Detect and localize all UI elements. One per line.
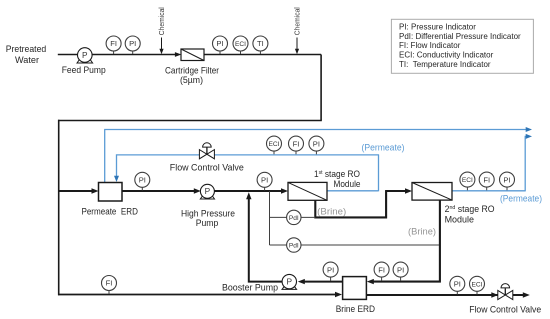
arrow booster discharge into HP line [246,192,251,199]
instrument PI HP line [257,172,272,190]
svg-text:FI: FI [293,139,300,148]
wire bottom feed to Brine ERD [58,294,336,296]
feed pump P [62,48,106,76]
arrow into Permeate ERD [92,188,99,193]
svg-text:Flow Control Valve: Flow Control Valve [469,305,541,316]
wire module 1 permeate (blue line B) [117,154,380,191]
wire Brine ERD outlet bottom right [366,294,524,296]
svg-text:(Permeate): (Permeate) [500,193,542,203]
wire Brine ERD to booster pump [304,281,343,283]
RO module 1 [288,169,361,201]
svg-text:FI: FI [106,279,113,288]
svg-text:Booster Pump: Booster Pump [222,283,278,294]
svg-text:FI: Flow Indicator: FI: Flow Indicator [399,41,461,50]
svg-text:ECI: ECI [472,281,483,288]
svg-text:Module: Module [445,214,474,225]
svg-text:PI: PI [216,39,223,48]
svg-text:P: P [205,186,211,196]
wire corner drop right [320,55,322,121]
svg-text:FI: FI [378,265,385,274]
svg-text:PI: PI [397,265,404,274]
arrow discharge end [523,292,530,297]
wire module 2 permeate (blue line C) [452,136,527,191]
svg-text:PI: PI [261,176,268,185]
instrument FI permeate B [289,136,304,154]
svg-text:TI: TI [257,39,264,48]
arrow brine into Brine ERD right side [367,279,374,284]
arrow into RO module 1 [281,188,288,193]
wire module 1 brine line [314,191,405,218]
instrument ECI permeate B [267,136,282,154]
cartridge filter [165,49,219,86]
svg-text:ECI: Conductivity Indicator: ECI: Conductivity Indicator [399,51,494,60]
svg-text:(Permeate): (Permeate) [362,143,405,153]
Brine ERD [336,277,375,316]
svg-text:Permeate ERD: Permeate ERD [81,207,138,218]
svg-text:(5µm): (5µm) [180,75,203,86]
svg-text:(Brine): (Brine) [408,227,436,237]
svg-text:Pretreated: Pretreated [6,44,47,55]
arrow into cartridge filter [175,52,182,57]
chemical dosing point 2 [292,7,301,54]
instrument PI feed [125,36,140,54]
svg-text:(Brine): (Brine) [317,206,346,216]
svg-text:Brine ERD: Brine ERD [336,304,375,315]
svg-text:PI: PI [129,39,136,48]
instrument FI feed [106,36,121,54]
instrument TI after filter [253,36,268,54]
wire HP feed branch [58,190,93,192]
instrument PI brine inlet [393,262,408,281]
svg-text:PdI: PdI [289,243,299,250]
instrument ECI discharge [470,276,485,294]
svg-text:Pump: Pump [196,218,219,229]
flow control valve (permeate) [170,143,244,174]
high pressure pump P [181,184,235,229]
node pretreated water inlet label [6,44,47,66]
svg-text:Water: Water [15,55,39,66]
svg-text:PdI: Differential Pressure Ind: PdI: Differential Pressure Indicator [399,32,521,41]
wire return line [58,120,322,122]
svg-text:Feed Pump: Feed Pump [62,65,106,76]
arrow into HP pump [194,188,201,193]
svg-text:Module: Module [334,179,361,190]
flow control valve (discharge) [469,284,541,316]
instrument PI ERD outlet [135,172,150,190]
svg-text:PI: PI [313,139,320,148]
svg-text:PI: PI [503,175,510,184]
instrument PI after filter [213,36,228,54]
svg-text:PI: PI [454,280,461,289]
arrow permeate header outlet [526,127,532,132]
instrument PdI overall [287,238,301,252]
instrument ECI after filter [233,36,248,54]
svg-text:PI: Pressure Indicator: PI: Pressure Indicator [399,23,476,32]
svg-text:ECI: ECI [462,177,473,184]
wire module 2 brine line [373,199,441,281]
arrow before outlet valve [491,292,498,297]
svg-text:PI: PI [327,265,334,274]
wire feed line top [58,54,176,56]
chemical dosing point 1 [157,7,166,54]
arrow into booster pump [298,279,305,284]
instrument PdI stage 1 [287,210,301,224]
svg-text:Chemical: Chemical [157,7,166,35]
svg-text:FI: FI [483,175,490,184]
svg-text:P: P [287,277,293,287]
svg-text:Flow Control Valve: Flow Control Valve [170,162,244,173]
svg-text:PdI: PdI [289,215,299,222]
svg-text:ECI: ECI [235,41,246,48]
wire PdI sense lines [270,191,440,245]
svg-text:TI: Temperature Indicator: TI: Temperature Indicator [399,60,491,69]
svg-text:P: P [82,50,88,60]
wire booster pump discharge riser [249,198,282,283]
booster pump P [222,274,297,293]
arrow permeate into Permeate ERD [114,176,119,182]
wire left vertical [58,120,60,296]
instrument PI permeate C [500,172,515,190]
svg-text:ECI: ECI [269,141,280,148]
svg-text:PI: PI [139,176,146,185]
instrument ECI permeate C [460,172,475,190]
arrow module 2 permeate outlet [526,134,532,139]
svg-text:Chemical: Chemical [292,7,301,35]
legend box [391,19,533,73]
arrow into Brine ERD bottom-left [335,292,342,297]
instrument PI permeate B [309,136,324,154]
instrument FI brine inlet [374,262,389,281]
instrument PI booster [323,262,338,281]
wire HP pump to module 1 [214,190,282,192]
RO module 2 [412,183,495,226]
arrow into RO module 2 [405,188,412,193]
instrument FI permeate C [479,172,494,190]
instrument FI bottom feed [102,276,117,294]
wire Permeate ERD to HP pump [122,190,195,192]
wire filter outlet to corner [204,54,321,56]
Permeate ERD [81,183,138,218]
svg-text:FI: FI [110,39,117,48]
instrument PI discharge [450,276,465,294]
wire permeate header (blue line A) [104,130,526,183]
